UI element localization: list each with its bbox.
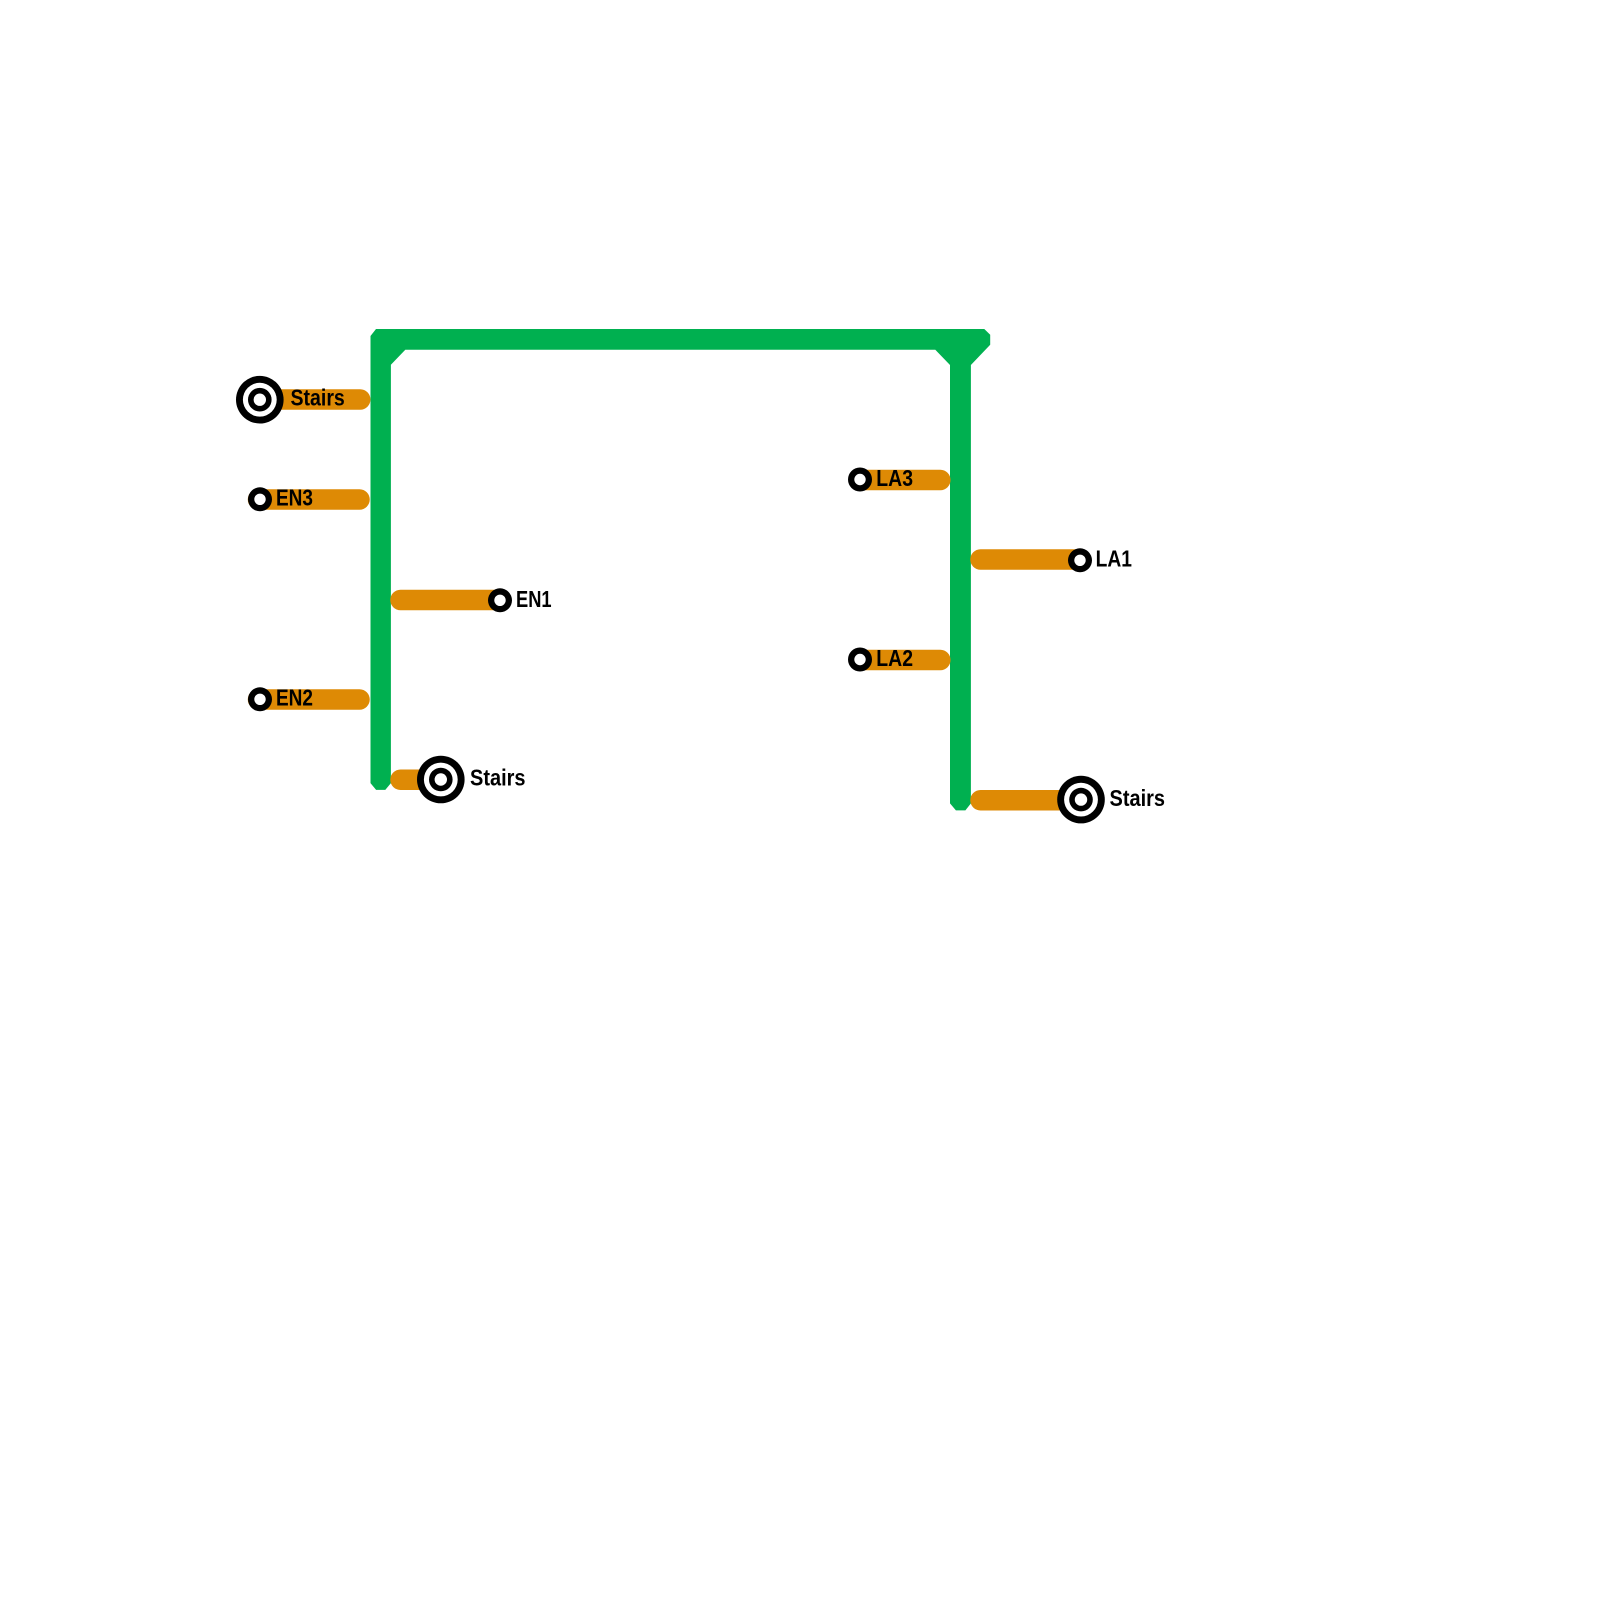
wire orange stub Stairs bottom-right [981, 790, 1082, 811]
node EN1 [488, 588, 512, 612]
svg-text:EN2: EN2 [276, 685, 313, 711]
node EN2 [248, 687, 272, 711]
svg-text:LA3: LA3 [876, 465, 913, 491]
wire orange stub Stairs top-left [258, 389, 360, 410]
node Stairs bottom-left (bullseye) [417, 756, 465, 804]
wire orange stub EN2 [258, 689, 360, 710]
wire orange stub EN3 [258, 489, 360, 510]
wire orange stub EN1 [401, 590, 501, 611]
wire orange stub LA1 [981, 549, 1081, 570]
svg-text:EN1: EN1 [516, 586, 552, 612]
node LA1 [1068, 548, 1092, 572]
wire green corridor line (top bar + left and right verticals) [371, 329, 991, 810]
svg-text:LA1: LA1 [1096, 545, 1132, 571]
svg-text:Stairs: Stairs [470, 765, 526, 791]
node EN3 [248, 487, 272, 511]
svg-text:Stairs: Stairs [291, 384, 345, 410]
svg-text:EN3: EN3 [276, 485, 313, 511]
wire orange stub Stairs bottom-left [401, 769, 442, 790]
node LA3 [848, 468, 872, 492]
wire orange stub LA3 [860, 470, 940, 491]
svg-text:Stairs: Stairs [1110, 785, 1166, 811]
node LA2 [848, 648, 872, 672]
node Stairs top-left (bullseye) [236, 376, 284, 424]
node Stairs bottom-right (bullseye) [1057, 776, 1105, 824]
svg-text:LA2: LA2 [876, 645, 913, 671]
wire orange stub LA2 [860, 650, 940, 671]
